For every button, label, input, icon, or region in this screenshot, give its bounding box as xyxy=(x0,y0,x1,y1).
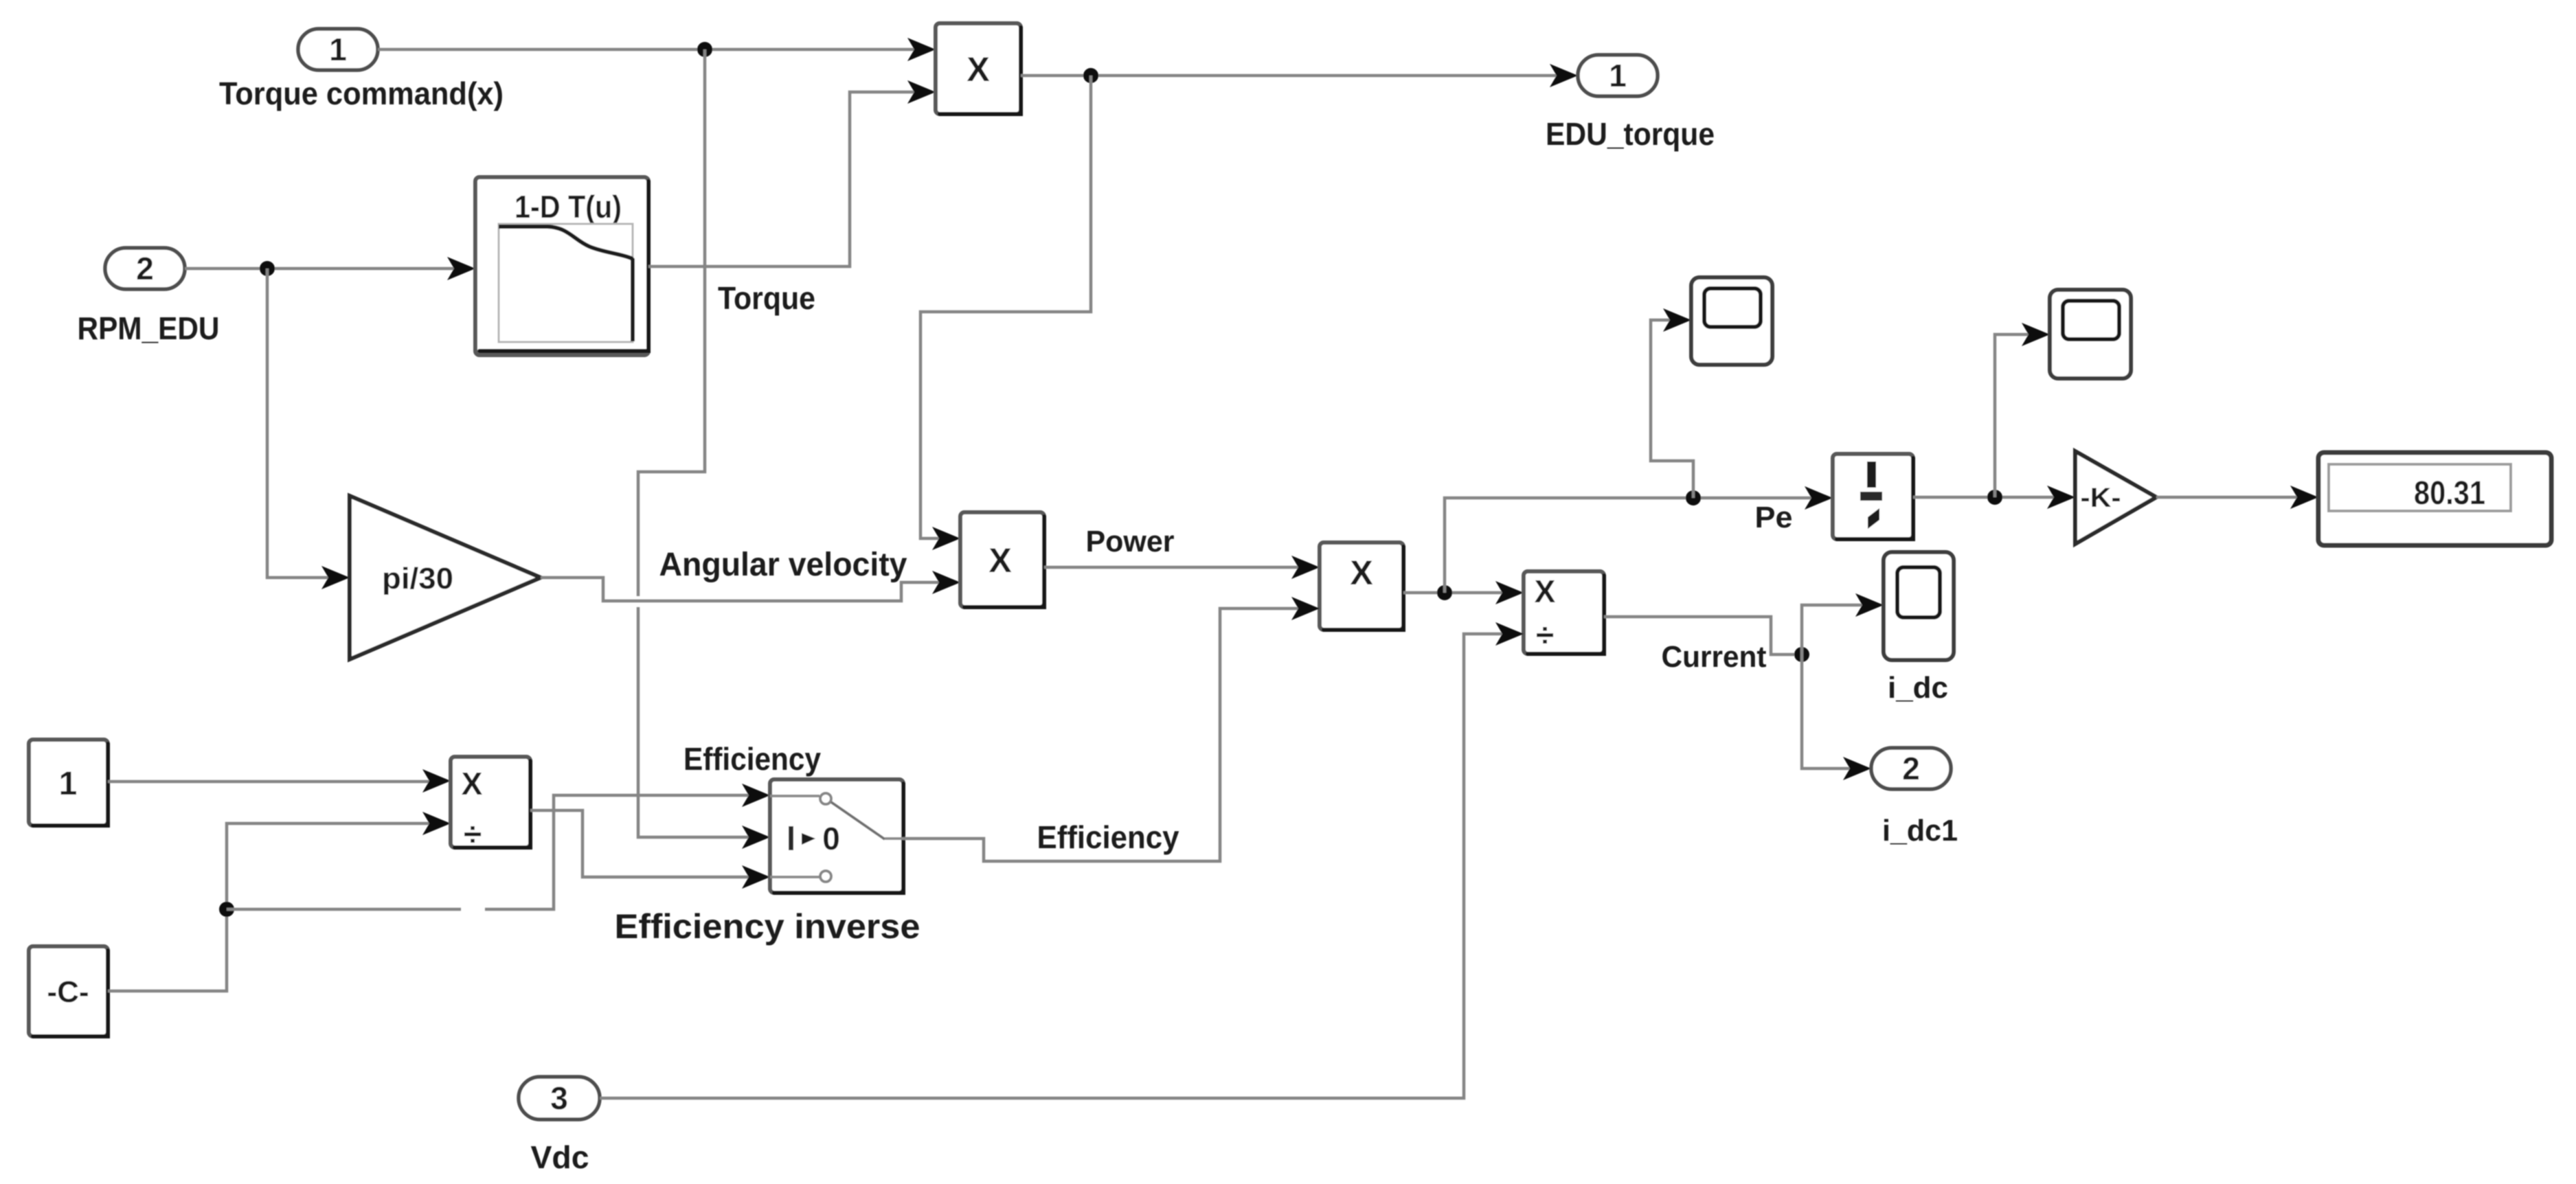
scope (power scope) xyxy=(1691,277,1772,365)
wire constant -C- to divide second input xyxy=(108,812,451,991)
svg-text:pi/30: pi/30 xyxy=(382,562,453,595)
svg-text:0: 0 xyxy=(822,821,840,856)
wire Torque branch down to switch control xyxy=(638,49,770,849)
inport 2 (RPM_EDU) xyxy=(78,248,220,346)
node junction on X2 output xyxy=(1437,585,1452,600)
wire switch output to X2 second input (Efficiency) xyxy=(903,597,1320,861)
wire Power to X2 (Power) xyxy=(1044,556,1320,579)
inport 3 (Vdc) xyxy=(519,1077,600,1175)
lookup table 1-D T(u) xyxy=(475,177,648,355)
svg-text:÷: ÷ xyxy=(1536,617,1554,654)
scope (efficiency scope top right) xyxy=(2050,290,2131,378)
svg-text:1: 1 xyxy=(59,766,78,802)
node junction after divide xyxy=(1987,490,2002,505)
inport 1 (Torque command) xyxy=(219,29,504,111)
svg-text:X: X xyxy=(462,766,483,801)
wire X1 output branch down to Power product xyxy=(920,76,1091,550)
svg-text:X: X xyxy=(1350,554,1372,592)
svg-text:Torque: Torque xyxy=(718,280,815,316)
wire -C- junction to switch first input xyxy=(227,784,770,909)
constant -C- xyxy=(29,946,108,1036)
node junction on In1 wire xyxy=(697,42,712,57)
wire In1 to product X1 xyxy=(378,38,936,61)
svg-text:Torque command(x): Torque command(x) xyxy=(219,76,504,111)
svg-text:Efficiency inverse: Efficiency inverse xyxy=(615,907,920,946)
wire current junction down to outport i_dc1 xyxy=(1802,654,1871,780)
wire current junction to scope i_dc xyxy=(1802,593,1884,654)
switch block xyxy=(770,779,903,893)
svg-text:80.31: 80.31 xyxy=(2414,475,2485,512)
wire Pe divide to gain -K- xyxy=(1913,486,2075,509)
node junction on -C- wire xyxy=(219,902,234,917)
svg-text:2: 2 xyxy=(1902,751,1920,786)
divide block X / (current) xyxy=(1524,571,1604,654)
wire junction to scope 2 xyxy=(1995,323,2050,497)
wire current output xyxy=(1604,617,1794,654)
wire X2 output to divide (current) block xyxy=(1403,581,1524,604)
gain pi/30 xyxy=(350,496,541,659)
svg-text:Vdc: Vdc xyxy=(531,1139,589,1175)
node junction on X1 output xyxy=(1083,68,1098,83)
wire constant 1 to divide X/ first input xyxy=(108,769,451,793)
wire gain to display xyxy=(2156,486,2318,509)
svg-text:1: 1 xyxy=(329,32,347,67)
svg-text:Angular velocity: Angular velocity xyxy=(659,547,907,583)
scope i_dc xyxy=(1884,552,1954,705)
svg-text:÷: ÷ xyxy=(464,817,482,853)
wire X1 to outport EDU_torque xyxy=(1021,64,1578,87)
svg-text:-K-: -K- xyxy=(2081,483,2121,513)
svg-text:Efficiency: Efficiency xyxy=(683,741,821,777)
display 80.31 xyxy=(2318,453,2551,545)
svg-text:Efficiency: Efficiency xyxy=(1037,819,1179,855)
svg-text:Power: Power xyxy=(1086,525,1175,558)
divide block X / (efficiency inverse) xyxy=(451,757,530,853)
wire gain to Power product (Angular velocity) xyxy=(541,571,960,601)
product X Power xyxy=(960,512,1044,607)
svg-text:1: 1 xyxy=(1609,58,1627,93)
node junction Pe xyxy=(1686,490,1701,505)
svg-text:1-D T(u): 1-D T(u) xyxy=(515,189,622,225)
svg-text:i_dc: i_dc xyxy=(1888,671,1948,705)
svg-text:Current: Current xyxy=(1662,640,1767,674)
svg-text:i_dc1: i_dc1 xyxy=(1882,814,1958,847)
product X1 (torque product) xyxy=(936,23,1021,114)
wire junction to gain pi/30 xyxy=(267,269,350,589)
wire lookup table to X1 second input xyxy=(648,80,936,266)
node junction Current xyxy=(1794,647,1809,662)
svg-text:Pe: Pe xyxy=(1755,501,1793,534)
svg-text:EDU_torque: EDU_torque xyxy=(1546,116,1715,152)
wire Pe junction to scope 1 xyxy=(1651,308,1693,498)
outport 2 (i_dc1) xyxy=(1871,748,1958,847)
svg-text:RPM_EDU: RPM_EDU xyxy=(78,310,220,346)
product X2 (power x efficiency) xyxy=(1320,543,1403,630)
node junction on In2 wire xyxy=(260,261,275,276)
svg-text:X: X xyxy=(988,541,1011,580)
wire divide output to switch third input xyxy=(530,810,770,889)
outport 1 (EDU_torque) xyxy=(1546,55,1715,152)
constant 1 xyxy=(29,740,108,826)
svg-text:3: 3 xyxy=(550,1080,568,1116)
svg-text:X: X xyxy=(967,50,989,89)
wire In2 to lookup table xyxy=(185,257,475,280)
svg-text:X: X xyxy=(1535,573,1556,609)
wire X2 junction up to Pe divide block xyxy=(1445,486,1833,593)
svg-text:2: 2 xyxy=(136,251,154,286)
gain -K- xyxy=(2075,451,2156,544)
wire Vdc to divide (current) second input xyxy=(600,622,1524,1098)
svg-text:-C-: -C- xyxy=(47,975,89,1009)
divide block Pe xyxy=(1833,454,1913,539)
